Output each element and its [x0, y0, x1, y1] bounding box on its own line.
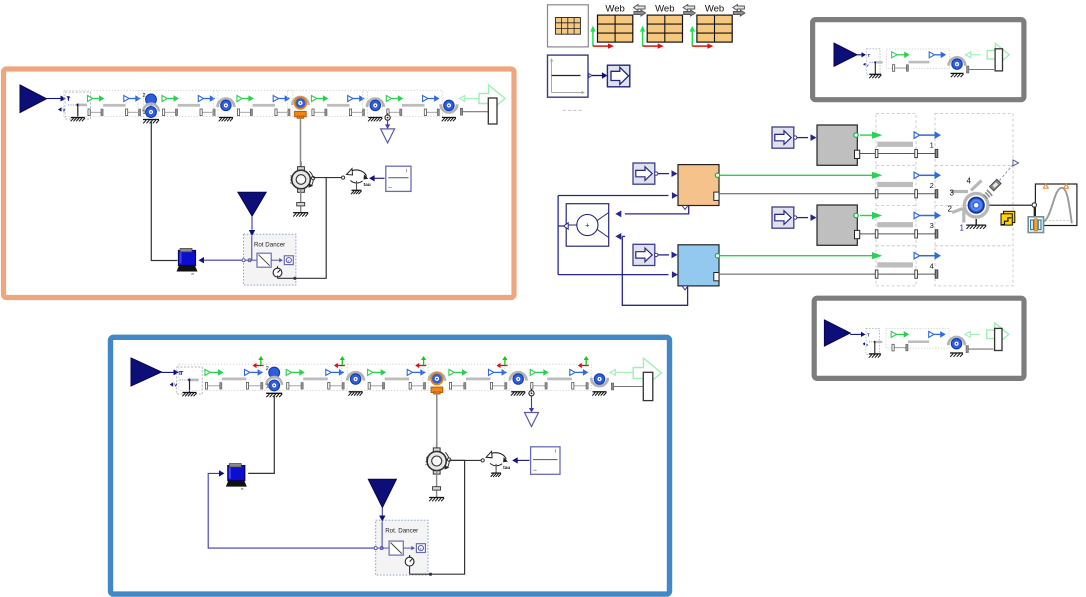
- svg-text:1: 1: [960, 224, 965, 233]
- svg-text:e: e: [288, 259, 290, 263]
- svg-text:2: 2: [143, 93, 146, 99]
- svg-text:m: m: [192, 272, 195, 276]
- svg-text:Web: Web: [605, 4, 624, 15]
- svg-text:T: T: [868, 53, 871, 58]
- svg-text:Rot. Dancer: Rot. Dancer: [385, 528, 418, 535]
- svg-text:tau: tau: [503, 465, 510, 471]
- svg-text:m: m: [241, 487, 244, 491]
- svg-text:2: 2: [266, 366, 269, 372]
- svg-text:4: 4: [967, 177, 972, 186]
- svg-text:3: 3: [930, 221, 934, 230]
- svg-text:v: v: [866, 343, 869, 347]
- svg-text:Web: Web: [655, 4, 674, 15]
- svg-text:tau: tau: [364, 182, 371, 188]
- svg-text:e: e: [420, 547, 422, 551]
- svg-text:3: 3: [950, 189, 955, 198]
- svg-text:4: 4: [930, 261, 934, 270]
- svg-text:Z Axis: Z Axis: [290, 175, 294, 185]
- svg-text:+: +: [585, 221, 590, 230]
- svg-text:1: 1: [930, 141, 934, 150]
- svg-text:Web: Web: [705, 4, 724, 15]
- svg-text:Rot Dancer: Rot Dancer: [254, 242, 285, 249]
- svg-text:v: v: [867, 63, 870, 67]
- svg-text:Z Axis: Z Axis: [425, 456, 429, 466]
- svg-text:1: 1: [143, 110, 146, 116]
- svg-text:2: 2: [930, 181, 934, 190]
- svg-text:T: T: [867, 332, 870, 337]
- svg-text:1: 1: [266, 383, 269, 389]
- svg-text:2: 2: [948, 205, 953, 214]
- svg-text:v: v: [174, 383, 177, 389]
